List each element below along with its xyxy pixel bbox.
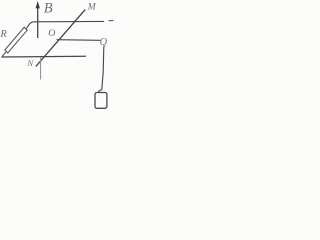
rail bottom H3 xyxy=(2,55,87,58)
wire resistor to bottom rail xyxy=(2,52,6,57)
svg-text:R: R xyxy=(0,29,7,40)
background xyxy=(0,0,116,114)
svg-text:O: O xyxy=(48,28,55,39)
string horizontal from rod to table edge pulley xyxy=(57,39,101,42)
hanging weight box xyxy=(95,93,107,109)
string vertical to weight xyxy=(99,47,104,93)
table leg support line xyxy=(40,57,42,80)
svg-text:M: M xyxy=(87,3,97,13)
rod MN xyxy=(36,10,85,67)
rail top H1 xyxy=(26,21,104,28)
svg-text:N: N xyxy=(26,58,34,68)
magnetic field arrow B xyxy=(36,1,40,38)
dash right of rail top xyxy=(109,19,114,21)
svg-text:B: B xyxy=(44,1,53,17)
resistor R box xyxy=(5,27,27,53)
svg-text:Q: Q xyxy=(100,37,108,48)
